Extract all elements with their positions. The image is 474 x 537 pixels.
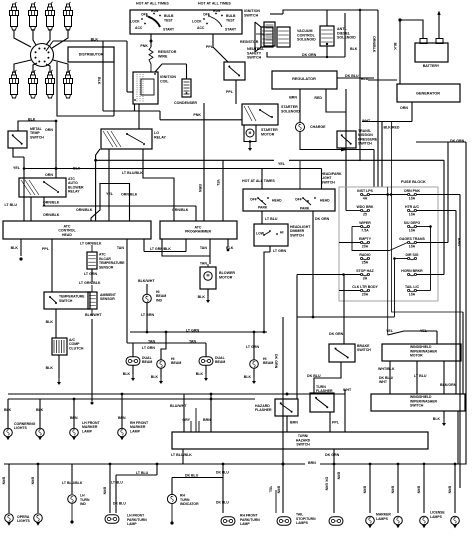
svg-text:TAN: TAN — [189, 339, 197, 343]
svg-text:DK GRN: DK GRN — [274, 354, 278, 369]
svg-text:TAN: TAN — [200, 246, 208, 250]
svg-text:INST LPS: INST LPS — [357, 189, 373, 193]
svg-text:HTR A/C: HTR A/C — [405, 205, 420, 209]
svg-text:GRY: GRY — [182, 418, 190, 422]
svg-text:YEL: YEL — [106, 192, 114, 196]
svg-text:BRN: BRN — [362, 486, 366, 494]
svg-text:DK BLU: DK BLU — [185, 474, 199, 478]
svg-text:BATTERY: BATTERY — [423, 64, 440, 68]
svg-text:WHT/BLK: WHT/BLK — [378, 367, 395, 371]
svg-text:BLK: BLK — [91, 37, 99, 41]
svg-text:GAGES TRANS: GAGES TRANS — [399, 237, 425, 241]
svg-text:BRN: BRN — [203, 418, 211, 422]
svg-text:REGULATOR: REGULATOR — [292, 77, 316, 81]
svg-text:LT GRN/BLK: LT GRN/BLK — [150, 247, 171, 251]
svg-text:PPL: PPL — [226, 90, 234, 94]
svg-text:BLK: BLK — [151, 375, 159, 379]
svg-text:TAIL LIC: TAIL LIC — [405, 285, 420, 289]
svg-text:RADIO: RADIO — [359, 253, 371, 257]
svg-text:STOP HAZ: STOP HAZ — [356, 269, 374, 273]
svg-text:LT BLU/BLK: LT BLU/BLK — [171, 453, 192, 457]
svg-text:20A: 20A — [362, 292, 369, 296]
svg-text:RUN: RUN — [151, 9, 159, 13]
svg-text:TAN: TAN — [148, 339, 156, 343]
svg-text:LT GRN: LT GRN — [84, 272, 98, 276]
svg-text:LT BLU: LT BLU — [111, 481, 123, 485]
svg-text:ORN/BLK: ORN/BLK — [43, 200, 60, 204]
svg-text:LT BLU: LT BLU — [4, 203, 17, 207]
svg-text:LT GRN: LT GRN — [273, 249, 287, 253]
svg-text:HOT AT ALL TIMES: HOT AT ALL TIMES — [198, 1, 231, 5]
svg-text:YEL: YEL — [386, 329, 394, 333]
svg-text:DK BLU: DK BLU — [113, 502, 126, 506]
svg-text:BLU/WHT: BLU/WHT — [170, 404, 187, 408]
svg-text:RUN: RUN — [213, 9, 221, 13]
svg-text:BLK: BLK — [36, 408, 44, 412]
svg-text:25A: 25A — [362, 260, 369, 264]
svg-text:BRN: BRN — [290, 420, 298, 424]
svg-text:HI: HI — [280, 231, 283, 235]
svg-text:BLK: BLK — [393, 43, 397, 51]
svg-text:ACC: ACC — [197, 26, 205, 30]
svg-text:OFF: OFF — [250, 198, 257, 202]
svg-text:HOT AT ALL TIMES: HOT AT ALL TIMES — [136, 1, 169, 5]
svg-text:10A: 10A — [409, 292, 416, 296]
svg-text:GENERATOR: GENERATOR — [416, 92, 440, 96]
svg-text:PPL: PPL — [332, 420, 340, 424]
svg-text:BRN: BRN — [276, 486, 280, 494]
svg-text:DK BLU: DK BLU — [216, 471, 229, 475]
svg-text:DK GRN: DK GRN — [302, 53, 317, 57]
svg-text:HEAD: HEAD — [320, 199, 330, 203]
svg-text:YEL: YEL — [216, 179, 220, 187]
svg-text:DIR SIG: DIR SIG — [405, 253, 418, 257]
svg-text:ORN/BLK: ORN/BLK — [172, 208, 189, 212]
svg-text:25: 25 — [363, 212, 367, 216]
svg-text:BLK: BLK — [123, 372, 131, 376]
svg-text:DK BLU: DK BLU — [216, 501, 229, 505]
svg-text:BLK: BLK — [244, 375, 252, 379]
svg-text:LT BLU: LT BLU — [265, 217, 278, 221]
svg-text:ORN/BLK: ORN/BLK — [76, 208, 93, 212]
svg-text:CHARGE: CHARGE — [310, 125, 326, 129]
svg-text:LT BLU: LT BLU — [136, 471, 149, 475]
svg-text:ORN/BLK: ORN/BLK — [43, 213, 60, 217]
svg-text:M: M — [249, 131, 252, 135]
svg-text:DK BLU: DK BLU — [345, 74, 359, 78]
svg-text:BRN: BRN — [308, 461, 316, 465]
svg-text:S/U DEFG: S/U DEFG — [404, 221, 421, 225]
svg-text:DUALBEAM: DUALBEAM — [142, 356, 153, 364]
svg-text:DK GRN: DK GRN — [325, 453, 340, 457]
svg-text:LT GRN: LT GRN — [141, 313, 155, 317]
svg-text:M: M — [207, 273, 210, 277]
svg-text:BRN: BRN — [336, 472, 340, 480]
svg-text:BLK: BLK — [46, 320, 54, 324]
svg-text:BULBTEST: BULBTEST — [226, 14, 236, 22]
svg-text:WHT: WHT — [343, 388, 352, 392]
svg-text:LT BLU/BLK: LT BLU/BLK — [122, 171, 143, 175]
svg-text:BLK: BLK — [46, 366, 54, 370]
svg-text:BLU: BLU — [361, 77, 369, 81]
svg-text:20A: 20A — [362, 244, 369, 248]
svg-text:FUSE BLOCK: FUSE BLOCK — [401, 180, 426, 184]
svg-text:BLK/WHT: BLK/WHT — [85, 313, 102, 317]
svg-text:OPERALIGHTS: OPERALIGHTS — [17, 515, 30, 523]
svg-text:BRN: BRN — [70, 416, 78, 420]
svg-text:HAZARDFLASHER: HAZARDFLASHER — [255, 404, 272, 412]
svg-text:10A: 10A — [409, 212, 416, 216]
svg-text:EMPTY: EMPTY — [359, 237, 372, 241]
svg-text:OFF: OFF — [295, 198, 302, 202]
svg-text:10A: 10A — [409, 244, 416, 248]
svg-text:BLK: BLK — [196, 372, 204, 376]
svg-text:STARTERSOLENOID: STARTERSOLENOID — [281, 105, 300, 113]
svg-text:YEL: YEL — [13, 166, 21, 170]
svg-text:BRN: BRN — [118, 416, 126, 420]
svg-text:PARK: PARK — [300, 207, 310, 211]
svg-text:CONDENSER: CONDENSER — [174, 101, 197, 105]
svg-text:LT BLU: LT BLU — [414, 374, 427, 378]
svg-text:ORN/BLK: ORN/BLK — [372, 36, 376, 53]
svg-text:BLK: BLK — [28, 117, 36, 121]
svg-text:LT GRN: LT GRN — [142, 346, 156, 350]
svg-text:START: START — [225, 28, 237, 32]
svg-text:YEL: YEL — [268, 486, 272, 493]
svg-text:HEAD: HEAD — [272, 199, 282, 203]
svg-text:HOT AT ALL TIMES: HOT AT ALL TIMES — [242, 179, 275, 183]
svg-text:BLK: BLK — [11, 246, 19, 250]
svg-text:BLK/ORN: BLK/ORN — [440, 383, 457, 387]
svg-text:ORN: ORN — [45, 128, 53, 132]
svg-text:IGNITIONSWITCH: IGNITIONSWITCH — [244, 9, 260, 17]
svg-text:RESISTOR: RESISTOR — [240, 40, 259, 44]
svg-text:BRAKESWITCH: BRAKESWITCH — [357, 344, 371, 352]
svg-text:ACC: ACC — [135, 26, 143, 30]
svg-text:YEL: YEL — [420, 329, 428, 333]
svg-text:HORN BRKR: HORN BRKR — [401, 269, 423, 273]
svg-text:TAN: TAN — [200, 261, 208, 265]
svg-text:BLK: BLK — [97, 77, 101, 85]
svg-text:DK GRN: DK GRN — [324, 477, 328, 491]
svg-text:7.5A: 7.5A — [361, 228, 369, 232]
svg-text:PNK: PNK — [193, 113, 201, 117]
svg-text:BRN: BRN — [102, 487, 106, 495]
svg-text:WDO BRK: WDO BRK — [356, 205, 374, 209]
svg-text:BLK: BLK — [433, 417, 441, 421]
svg-text:4A: 4A — [363, 196, 368, 200]
svg-text:10A: 10A — [409, 228, 416, 232]
svg-text:LT GRN/BLK: LT GRN/BLK — [80, 241, 102, 245]
svg-text:PPL: PPL — [42, 247, 50, 251]
svg-text:TAN: TAN — [117, 246, 125, 250]
svg-text:ORN: ORN — [45, 173, 53, 177]
svg-text:LOCK: LOCK — [130, 20, 140, 24]
svg-text:WHT: WHT — [362, 119, 371, 123]
svg-text:PARK: PARK — [258, 206, 268, 210]
svg-text:BRN: BRN — [30, 477, 34, 485]
svg-text:DK GRN: DK GRN — [315, 217, 330, 221]
svg-text:BLK/WHT: BLK/WHT — [138, 279, 155, 283]
svg-text:BRN: BRN — [390, 486, 394, 494]
svg-text:DISTRIBUTOR: DISTRIBUTOR — [79, 52, 104, 56]
svg-text:BLK: BLK — [350, 47, 358, 51]
svg-text:ORN: ORN — [400, 106, 408, 110]
svg-text:ORN PNK: ORN PNK — [404, 189, 421, 193]
svg-text:PPL: PPL — [206, 45, 214, 49]
svg-text:LT BLU/BLK: LT BLU/BLK — [62, 481, 83, 485]
svg-text:BRN: BRN — [198, 184, 202, 192]
svg-text:LOCK: LOCK — [192, 20, 202, 24]
svg-text:RED: RED — [314, 96, 322, 100]
svg-text:ORN/BLK: ORN/BLK — [121, 192, 138, 196]
svg-text:WIPER: WIPER — [359, 221, 371, 225]
svg-text:BRN: BRN — [416, 486, 420, 494]
svg-text:DK GRN: DK GRN — [329, 332, 344, 336]
svg-text:AMBIENTSENSOR: AMBIENTSENSOR — [100, 293, 117, 301]
svg-text:LT GRN: LT GRN — [186, 328, 200, 332]
svg-text:YEL: YEL — [278, 162, 286, 166]
svg-text:START: START — [163, 28, 175, 32]
svg-text:10A: 10A — [409, 196, 416, 200]
svg-text:CLK LTR BODY: CLK LTR BODY — [352, 285, 378, 289]
svg-text:PNK: PNK — [140, 44, 148, 48]
svg-text:BRN: BRN — [289, 95, 297, 99]
svg-text:BULBTEST: BULBTEST — [164, 14, 174, 22]
svg-text:DUALBEAM: DUALBEAM — [215, 356, 226, 364]
svg-text:BLK: BLK — [73, 166, 81, 170]
svg-text:BRN: BRN — [1, 477, 5, 485]
svg-text:DK BLU: DK BLU — [307, 374, 321, 378]
svg-text:BLK: BLK — [4, 408, 12, 412]
svg-text:LT GRN/BLK: LT GRN/BLK — [79, 281, 101, 285]
svg-text:3A: 3A — [363, 276, 368, 280]
svg-text:BLK: BLK — [198, 295, 206, 299]
svg-text:LT GRN: LT GRN — [246, 345, 260, 349]
svg-text:BRN: BRN — [447, 486, 451, 494]
